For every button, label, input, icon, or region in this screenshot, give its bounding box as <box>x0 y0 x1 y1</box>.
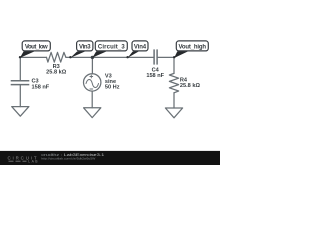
wire R4 to ground <box>173 93 175 108</box>
svg-text:Vout_high: Vout_high <box>179 44 207 50</box>
svg-text:http://circuitlab.com/c/e/5dk2: http://circuitlab.com/c/e/5dk2w5u5W <box>41 156 95 160</box>
ground under R4 <box>165 108 182 118</box>
capacitor C3 plates <box>11 81 30 85</box>
wire junction to V3 <box>91 57 93 73</box>
ground under V3 <box>84 108 101 118</box>
svg-text:158 nF: 158 nF <box>146 73 164 79</box>
component value texts <box>32 64 201 90</box>
node Vin3 tail <box>70 51 85 58</box>
node junction dot <box>91 56 94 59</box>
plus sign V3 <box>90 75 93 78</box>
resistor R3 <box>47 52 66 62</box>
node Vout_low tail <box>20 51 35 58</box>
wire top left segment <box>20 56 46 58</box>
svg-text:50 Hz: 50 Hz <box>105 84 120 90</box>
flag Vout_high <box>176 41 208 51</box>
flag label texts <box>25 44 207 50</box>
voltage source V3 <box>84 74 101 91</box>
node Vout_high tail <box>174 51 188 58</box>
wire right corner down to R4 <box>173 57 175 73</box>
svg-text:Circuit_3: Circuit_3 <box>98 44 125 50</box>
wire top right segment <box>158 56 174 58</box>
wire V3 to ground <box>91 91 93 108</box>
svg-text:25.8 kΩ: 25.8 kΩ <box>180 83 201 89</box>
minus sign V3 <box>90 88 93 90</box>
flag tails <box>20 51 188 58</box>
svg-text:C3: C3 <box>32 78 39 84</box>
watermark logo CIRCUIT <box>8 156 39 164</box>
svg-text:Vin3: Vin3 <box>79 44 91 50</box>
node Circuit_3 tail <box>92 51 106 57</box>
flag Circuit_3 <box>95 41 127 51</box>
capacitor C4 plates <box>154 49 157 64</box>
svg-text:158 nF: 158 nF <box>32 84 50 90</box>
svg-text:Vout_low: Vout_low <box>25 44 48 50</box>
wire left branch down <box>19 57 21 80</box>
resistor R4 <box>169 73 178 92</box>
svg-text:25.8 kΩ: 25.8 kΩ <box>46 70 67 76</box>
wire C3 to ground <box>19 85 21 106</box>
flag Vin4 <box>132 41 148 51</box>
ground under C3 <box>12 107 29 117</box>
node Vin4 tail <box>128 51 139 58</box>
flag Vin3 <box>77 41 93 51</box>
sine symbol inside V3 <box>86 79 99 87</box>
wire top middle segment <box>66 56 153 58</box>
flag boxes <box>22 41 208 51</box>
svg-text:LAB: LAB <box>28 159 38 163</box>
svg-text:Vin4: Vin4 <box>134 44 147 50</box>
flag Vout_low <box>22 41 50 51</box>
watermark bar <box>0 151 220 165</box>
node anchor dots <box>19 56 176 58</box>
